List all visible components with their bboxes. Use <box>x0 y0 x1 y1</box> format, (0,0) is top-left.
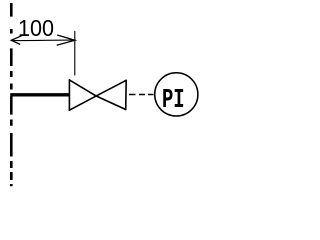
extension line <box>74 31 76 76</box>
svg-text:PI: PI <box>162 85 185 115</box>
dimension arrowhead left <box>11 36 22 45</box>
pipe (thick line) <box>10 93 69 96</box>
svg-text:100: 100 <box>18 15 54 41</box>
centerline (dash-dot vertical) <box>10 3 13 186</box>
valve V1 (gate valve bowtie) <box>69 80 126 110</box>
instrument bubble PI <box>155 73 198 116</box>
dimension arrowhead right <box>57 35 75 45</box>
instrument signal line (dashed) <box>129 94 154 96</box>
dimension line <box>11 39 75 42</box>
